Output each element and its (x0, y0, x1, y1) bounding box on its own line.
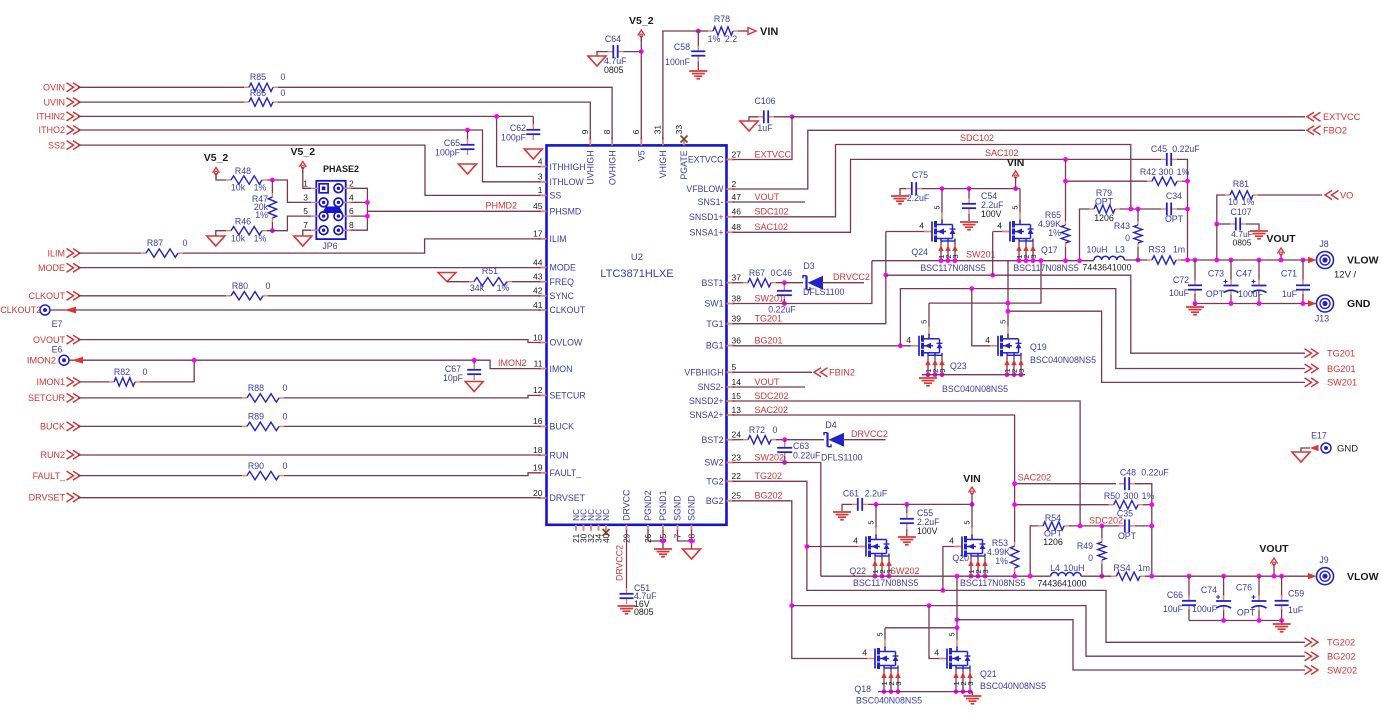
wire C58 to R78 node (697, 31, 699, 47)
svg-text:44: 44 (533, 257, 543, 267)
svg-text:12V /: 12V / (1334, 270, 1357, 281)
svg-text:C64: C64 (605, 34, 621, 44)
svg-text:27: 27 (732, 149, 742, 159)
svg-text:100nF: 100nF (665, 57, 691, 67)
wire SGND pin7 to pin28 (678, 530, 692, 541)
svg-text:D4: D4 (825, 420, 836, 430)
svg-text:EXTVCC: EXTVCC (755, 149, 792, 159)
wire BG202 branch to port (792, 606, 1305, 657)
svg-text:D3: D3 (803, 261, 814, 271)
transistor Q20 BSC117N08NS5 (943, 547, 962, 591)
pin 7 SGND (bottom) (677, 525, 679, 531)
capacitor C48 0.22uF (1119, 483, 1125, 485)
wire to capacitor C65 (467, 130, 469, 141)
svg-text:FAULT_: FAULT_ (550, 468, 582, 478)
wire pin 14 SNS2- (VOUT) (733, 386, 806, 388)
svg-text:43: 43 (533, 272, 543, 282)
capacitor C75 2.2uF (906, 188, 912, 190)
svg-text:10k: 10k (231, 183, 246, 193)
svg-text:SNSD1+: SNSD1+ (689, 212, 723, 222)
svg-text:4: 4 (919, 221, 924, 231)
svg-text:BUCK: BUCK (550, 422, 575, 432)
svg-text:J13: J13 (1315, 314, 1329, 324)
svg-text:C75: C75 (912, 170, 928, 180)
svg-text:OPT: OPT (1095, 197, 1114, 207)
resistor R80 0 (226, 295, 231, 297)
svg-text:DRVCC: DRVCC (622, 489, 632, 521)
svg-text:IMON: IMON (550, 364, 573, 374)
wire C48 to corner (1135, 484, 1152, 577)
svg-text:33: 33 (674, 125, 684, 135)
svg-text:34k: 34k (470, 283, 485, 293)
wire R89 to pin 16 BUCK (284, 425, 541, 427)
diode D4 DFLS1100 (826, 433, 828, 447)
svg-text:RUN2: RUN2 (40, 450, 65, 460)
svg-text:7: 7 (303, 220, 308, 230)
svg-text:100V: 100V (981, 209, 1002, 219)
resistor R49 0 (1101, 526, 1103, 538)
svg-text:C35: C35 (1117, 509, 1133, 519)
pin 38 SW1 (right) (727, 303, 735, 305)
pin 25 BG2 (right) (727, 500, 735, 502)
wire DRVSET to pin 20 (78, 497, 541, 499)
resistor R43 0 (1137, 221, 1139, 225)
wire pin 47 SNS1- (VOUT) (733, 201, 806, 203)
svg-text:V5_2: V5_2 (629, 15, 654, 27)
wire V5_2 down to pin 6 (640, 36, 642, 140)
svg-text:BST2: BST2 (701, 435, 723, 445)
wire TG2 pin 22 to TG202 route (733, 481, 1306, 642)
svg-text:FBO2: FBO2 (1323, 126, 1347, 136)
svg-text:10k: 10k (231, 234, 246, 244)
port connector TG201 (right) (1311, 349, 1318, 358)
svg-text:FREQ: FREQ (550, 277, 575, 287)
svg-text:0805: 0805 (634, 607, 654, 617)
svg-text:0805: 0805 (604, 65, 624, 75)
wire ground to R51 (447, 281, 469, 283)
node source bus Q18/Q21 with ground (878, 691, 973, 693)
svg-text:16: 16 (533, 416, 543, 426)
svg-text:4: 4 (862, 648, 867, 658)
wire OVOUT to pin 10 OVLOW (78, 340, 541, 343)
pin 24 BST2 (right) (727, 439, 735, 441)
wire CLKOUT to R80 (78, 295, 226, 297)
svg-text:R46: R46 (235, 217, 251, 227)
resistor R86 0 (244, 101, 249, 103)
svg-text:41: 41 (533, 300, 543, 310)
wire R79 row (1080, 209, 1090, 261)
capacitor C71 1uF (1301, 258, 1306, 263)
svg-text:3: 3 (1017, 369, 1026, 373)
svg-text:4: 4 (985, 335, 990, 345)
svg-text:VFBHIGH: VFBHIGH (684, 368, 723, 378)
wire DRVCC pin29 to C51 (net DRVCC2) (626, 530, 628, 588)
pin 9 UVHIGH (top) (589, 137, 591, 145)
svg-text:10: 10 (533, 332, 543, 342)
jumper shunt on JP6 (322, 207, 343, 214)
pin 47 SNS1- (right) (727, 201, 735, 203)
svg-text:UVHIGH: UVHIGH (586, 150, 596, 184)
port connector SW201 (right) (1311, 378, 1318, 387)
svg-text:CLKOUT2: CLKOUT2 (0, 305, 41, 315)
svg-text:8: 8 (349, 220, 354, 230)
ground under C51 (618, 605, 636, 607)
svg-text:JP6: JP6 (322, 241, 337, 251)
wire pin 2 VFBLOW to FBO2 rail (733, 130, 1306, 189)
svg-text:OVIN: OVIN (43, 83, 65, 93)
wire C64 to ground (597, 52, 608, 56)
svg-text:SETCUR: SETCUR (28, 393, 66, 403)
resistor R72 0 (743, 439, 748, 441)
pin 35 PGND1 (bottom) (662, 525, 664, 531)
svg-text:Q21: Q21 (980, 669, 997, 679)
wire ILIM to R87 (78, 252, 141, 254)
svg-text:R54: R54 (1045, 513, 1061, 523)
svg-text:PGND1: PGND1 (658, 490, 668, 520)
port connector BG201 (right) (1311, 364, 1318, 373)
svg-text:R49: R49 (1077, 541, 1093, 551)
svg-text:SDC102: SDC102 (755, 207, 789, 217)
resistor R82 0 (109, 381, 114, 383)
svg-text:Q23: Q23 (950, 361, 967, 371)
wire OVIN to R85 (78, 86, 244, 88)
power symbol V5_2 (pin 6 V5) (638, 30, 645, 36)
wire R85 to pin 8 riser (278, 87, 612, 139)
port connector SW202 (right) (1311, 666, 1318, 675)
svg-text:BG1: BG1 (706, 341, 724, 351)
svg-text:OVLOW: OVLOW (550, 338, 583, 348)
wire TG net branch to Q17 gate and TG201 (886, 275, 1305, 353)
pin 33 PGATE (top) (683, 137, 685, 145)
svg-text:BSC117N08NS5: BSC117N08NS5 (920, 263, 985, 273)
node output gnd bus phase2 (1189, 620, 1282, 622)
wire JP6 right pins to PHSMD (351, 188, 367, 230)
svg-text:3: 3 (303, 192, 308, 202)
svg-text:DRVSET: DRVSET (29, 493, 66, 503)
ground for R51 (triangle) (438, 273, 456, 282)
wire C35 to node (1135, 525, 1152, 527)
svg-text:8: 8 (602, 129, 612, 134)
pin 32 NC (bottom) (590, 525, 592, 531)
capacitor C76 OPT (polarized) (1257, 574, 1262, 579)
ground JP6 pin 7 (triangle) (303, 230, 311, 236)
pin 3 ITHLOW (left) (539, 181, 547, 183)
wire pin 15 SNSD2+ to SDC202 drop (733, 401, 1081, 526)
svg-text:5: 5 (999, 320, 1008, 324)
svg-text:SNSA2+: SNSA2+ (690, 410, 724, 420)
capacitor C65 (467, 139, 469, 145)
svg-text:SS2: SS2 (48, 140, 65, 150)
svg-text:PHSMD: PHSMD (550, 207, 582, 217)
capacitor C67 (473, 364, 475, 370)
svg-text:MODE: MODE (550, 263, 577, 273)
svg-text:PGND2: PGND2 (643, 490, 653, 520)
svg-text:42: 42 (533, 286, 543, 296)
svg-text:EXTVCC: EXTVCC (688, 155, 724, 165)
svg-text:NC: NC (602, 509, 611, 521)
ground C55 (906, 529, 908, 536)
wire to capacitor C67 (473, 360, 475, 366)
svg-text:100uF: 100uF (1192, 604, 1218, 614)
ground output bus phase1 (1194, 304, 1196, 307)
svg-text:E17: E17 (1311, 431, 1327, 441)
svg-text:3: 3 (966, 681, 975, 685)
pin 48 SNSA1+ (right) (727, 231, 735, 233)
wire pin 46 SNSD1+ to SDC102 rail (733, 145, 1131, 217)
resistor R50 300 1% (1015, 504, 1109, 506)
wire V5_2 to R48 (216, 173, 226, 180)
JP6 pin 5 (319, 212, 328, 221)
svg-text:14: 14 (732, 377, 742, 387)
pin 8 OVHIGH (top) (611, 137, 613, 145)
svg-text:GND: GND (1337, 444, 1358, 455)
inductor L3 10uH 7443641000 (1094, 256, 1124, 260)
svg-text:Q22: Q22 (849, 566, 866, 576)
svg-text:C45: C45 (1151, 144, 1167, 154)
svg-text:L3: L3 (1115, 245, 1125, 255)
pin 13 SNSA2+ (right) (727, 414, 735, 416)
svg-text:FAULT_: FAULT_ (33, 471, 66, 481)
svg-text:C59: C59 (1288, 589, 1304, 599)
capacitor C58 (697, 46, 699, 52)
pin 2 VFBLOW (right) (727, 188, 735, 190)
wire R72 to D4 node (776, 439, 824, 441)
wire C107 node to VLOW rail (1216, 224, 1218, 260)
svg-text:DRVCC2: DRVCC2 (833, 272, 870, 282)
wire FAULT_ to R90 (78, 475, 242, 477)
transistor Q22 BSC117N08NS5 (807, 546, 866, 548)
svg-text:V5_2: V5_2 (204, 152, 229, 164)
ground E17 (triangle) (1301, 448, 1310, 452)
svg-text:SNS1-: SNS1- (698, 197, 724, 207)
svg-text:J9: J9 (1319, 555, 1328, 565)
capacitor C66 10uF (1187, 574, 1192, 579)
resistor R87 0 (141, 252, 146, 254)
capacitor C106 (758, 116, 764, 118)
capacitor C64 (624, 51, 642, 53)
svg-text:TG201: TG201 (1327, 349, 1355, 359)
svg-text:SAC102: SAC102 (755, 222, 789, 232)
svg-text:1uF: 1uF (1282, 289, 1298, 299)
node SW202 bus (phase2) (821, 575, 1051, 577)
wire SW node to SW201 port (1008, 311, 1305, 382)
svg-text:SW201: SW201 (1327, 378, 1357, 388)
svg-text:4: 4 (349, 192, 354, 202)
svg-text:IMON2: IMON2 (27, 356, 56, 366)
svg-text:4: 4 (997, 221, 1002, 231)
svg-text:1m: 1m (1173, 245, 1185, 255)
node SW201 bus (phase1) (872, 260, 1094, 262)
svg-text:R86: R86 (250, 88, 266, 98)
svg-text:OPT: OPT (1237, 608, 1256, 618)
svg-text:13: 13 (732, 405, 742, 415)
svg-text:7443641000: 7443641000 (1083, 263, 1132, 273)
pin 6 V5 (top) (640, 137, 642, 145)
svg-text:ILIM: ILIM (550, 234, 567, 244)
svg-text:0.22uF: 0.22uF (793, 451, 821, 461)
svg-text:1uF: 1uF (1288, 605, 1304, 615)
svg-text:ITHO2: ITHO2 (38, 125, 65, 135)
pin 34 NC (bottom) (598, 525, 600, 531)
svg-text:0.22uF: 0.22uF (1141, 468, 1169, 478)
svg-text:BG202: BG202 (755, 491, 783, 501)
resistor R81 10 1% (1217, 195, 1225, 224)
wire Q23 drain to Q19 drain (SW link) (929, 261, 1041, 303)
svg-text:BSC117N08NS5: BSC117N08NS5 (1013, 263, 1078, 273)
svg-text:E6: E6 (52, 345, 63, 355)
wire C34 to node (1177, 208, 1188, 210)
pin 28 SGND (bottom) (691, 525, 693, 531)
svg-text:C66: C66 (1167, 590, 1183, 600)
JP6 pin 2 (334, 184, 343, 193)
svg-text:19: 19 (533, 463, 543, 473)
svg-text:0: 0 (771, 268, 776, 278)
wire pin 27 EXTVCC to rail (733, 117, 793, 160)
svg-text:SGND: SGND (687, 495, 697, 520)
pin 23 SW2 (right) (727, 462, 735, 464)
resistor R65 4.99K 1% (1065, 221, 1067, 225)
wire pin 5 VFBHIGH to FBIN2 port (733, 371, 813, 373)
pin 46 SNSD1+ (right) (727, 216, 735, 218)
wire R88 to pin 12 SETCUR (284, 395, 541, 398)
svg-text:BG2: BG2 (706, 496, 724, 506)
svg-text:0.22uF: 0.22uF (768, 305, 796, 315)
svg-text:100V: 100V (917, 526, 938, 536)
resistor RS3 1m (1147, 259, 1152, 261)
capacitor C35 OPT (1119, 525, 1125, 527)
svg-text:6: 6 (631, 129, 641, 134)
svg-text:VLOW: VLOW (1347, 255, 1379, 267)
svg-text:48: 48 (732, 222, 742, 232)
svg-text:SS: SS (550, 191, 562, 201)
wire BUCK to R89 (78, 425, 242, 427)
svg-text:1%: 1% (1048, 228, 1061, 238)
svg-text:2.2uF: 2.2uF (907, 193, 930, 203)
ground C106 (triangle) (749, 117, 758, 121)
svg-text:C47: C47 (1236, 269, 1252, 279)
svg-text:3: 3 (1029, 254, 1038, 258)
port connector TG202 (right) (1311, 638, 1318, 647)
wire D4 to DRVCC2 (843, 439, 886, 441)
ground C61 (842, 504, 852, 511)
wire R48 to JP6 pin 3 (267, 180, 311, 202)
svg-text:4: 4 (934, 648, 939, 658)
svg-text:5: 5 (1011, 205, 1020, 209)
pin 29 DRVCC (bottom) (626, 525, 628, 531)
svg-text:R88: R88 (248, 383, 264, 393)
pin 17 ILIM (left) (539, 238, 547, 240)
svg-text:C65: C65 (444, 138, 460, 148)
ground under C58 (697, 62, 699, 71)
svg-text:SAC202: SAC202 (755, 405, 789, 415)
pin 36 BG1 (right) (727, 345, 735, 347)
svg-text:SNS2-: SNS2- (698, 382, 724, 392)
pin 11 IMON (left) (539, 368, 547, 370)
svg-text:100uF: 100uF (1238, 289, 1264, 299)
svg-text:BSC040N08NS5: BSC040N08NS5 (980, 681, 1046, 691)
svg-text:C71: C71 (1281, 269, 1297, 279)
pin 4 ITHHIGH (left) (539, 166, 547, 168)
svg-text:18: 18 (533, 445, 543, 455)
wire PGND1 pin35 down (662, 530, 664, 549)
capacitor C107 4.7uF 0805 (1230, 223, 1236, 225)
JP6 pin 8 (334, 226, 343, 235)
svg-text:VLOW: VLOW (1347, 571, 1379, 583)
ground under C67 (triangle) (465, 382, 483, 392)
wire L4 to RS4 (1081, 575, 1111, 577)
wire SETCUR to R88 (78, 397, 242, 399)
resistor R90 0 (242, 475, 247, 477)
svg-text:1206: 1206 (1043, 537, 1063, 547)
wire R67 to D3 node (776, 282, 803, 284)
svg-text:6: 6 (349, 206, 354, 216)
svg-text:TG201: TG201 (755, 314, 783, 324)
svg-text:4: 4 (538, 156, 543, 166)
wire R82 up to IMON2 net (140, 360, 194, 382)
pin 14 SNS2- (right) (727, 386, 735, 388)
resistor R48 10k 1% (226, 179, 231, 181)
svg-text:V5: V5 (637, 150, 647, 161)
JP6 pin 1 (319, 184, 328, 193)
svg-text:0.22uF: 0.22uF (1172, 144, 1200, 154)
capacitor C34 OPT (1161, 208, 1167, 210)
svg-text:BSC117N08NS5: BSC117N08NS5 (853, 578, 918, 588)
wire IMON1 to R82 (79, 381, 109, 383)
svg-text:VHIGH: VHIGH (658, 150, 668, 178)
transistor Q21 BSC040N08NS5 (929, 606, 947, 659)
svg-text:DRVCC2: DRVCC2 (851, 429, 888, 439)
svg-text:PHMD2: PHMD2 (485, 201, 517, 211)
resistor RS4 1m (1111, 575, 1116, 577)
connector J9 VLOW (1308, 573, 1317, 579)
resistor R88 0 (242, 397, 247, 399)
svg-text:0: 0 (183, 238, 188, 248)
svg-text:17: 17 (533, 229, 543, 239)
svg-text:VIN: VIN (760, 26, 778, 38)
wire SW2 pin 23 to SW202 bus (733, 463, 821, 577)
capacitor C45 0.22uF (1161, 158, 1167, 160)
connector J13 GND (1308, 300, 1317, 306)
no-connect X on pin 33 (681, 136, 688, 143)
wire V5_2 to JP6 pin 1 (303, 167, 311, 188)
capacitor C51 (626, 588, 628, 594)
pin 16 BUCK (left) (539, 425, 547, 427)
wire R54 row corner (1030, 526, 1038, 576)
svg-text:0: 0 (143, 367, 148, 377)
svg-text:OPT: OPT (1206, 289, 1225, 299)
svg-text:3: 3 (981, 569, 990, 573)
svg-text:7443641000: 7443641000 (1038, 579, 1087, 589)
svg-text:IMON1: IMON1 (36, 377, 65, 387)
svg-text:SYNC: SYNC (550, 291, 575, 301)
svg-text:VFBLOW: VFBLOW (686, 184, 724, 194)
svg-text:0: 0 (283, 461, 288, 471)
svg-text:SW202: SW202 (890, 566, 920, 576)
svg-text:5: 5 (920, 320, 929, 324)
svg-text:BSC040N08NS5: BSC040N08NS5 (856, 696, 922, 706)
wire BG1 pin 36 to Q23 gate (733, 345, 920, 347)
svg-text:31: 31 (653, 125, 663, 135)
ground under C62 (triangle) (524, 149, 542, 159)
port connector FBO2 (right) (1307, 126, 1314, 135)
svg-text:R67: R67 (749, 268, 765, 278)
wire UVIN to R86 (78, 101, 244, 103)
wire Q21 drain riser to SW202 bus (956, 576, 958, 620)
svg-text:SW1: SW1 (704, 299, 723, 309)
svg-text:0: 0 (1088, 553, 1093, 563)
svg-text:VO: VO (1340, 191, 1353, 201)
svg-text:C62: C62 (510, 123, 526, 133)
